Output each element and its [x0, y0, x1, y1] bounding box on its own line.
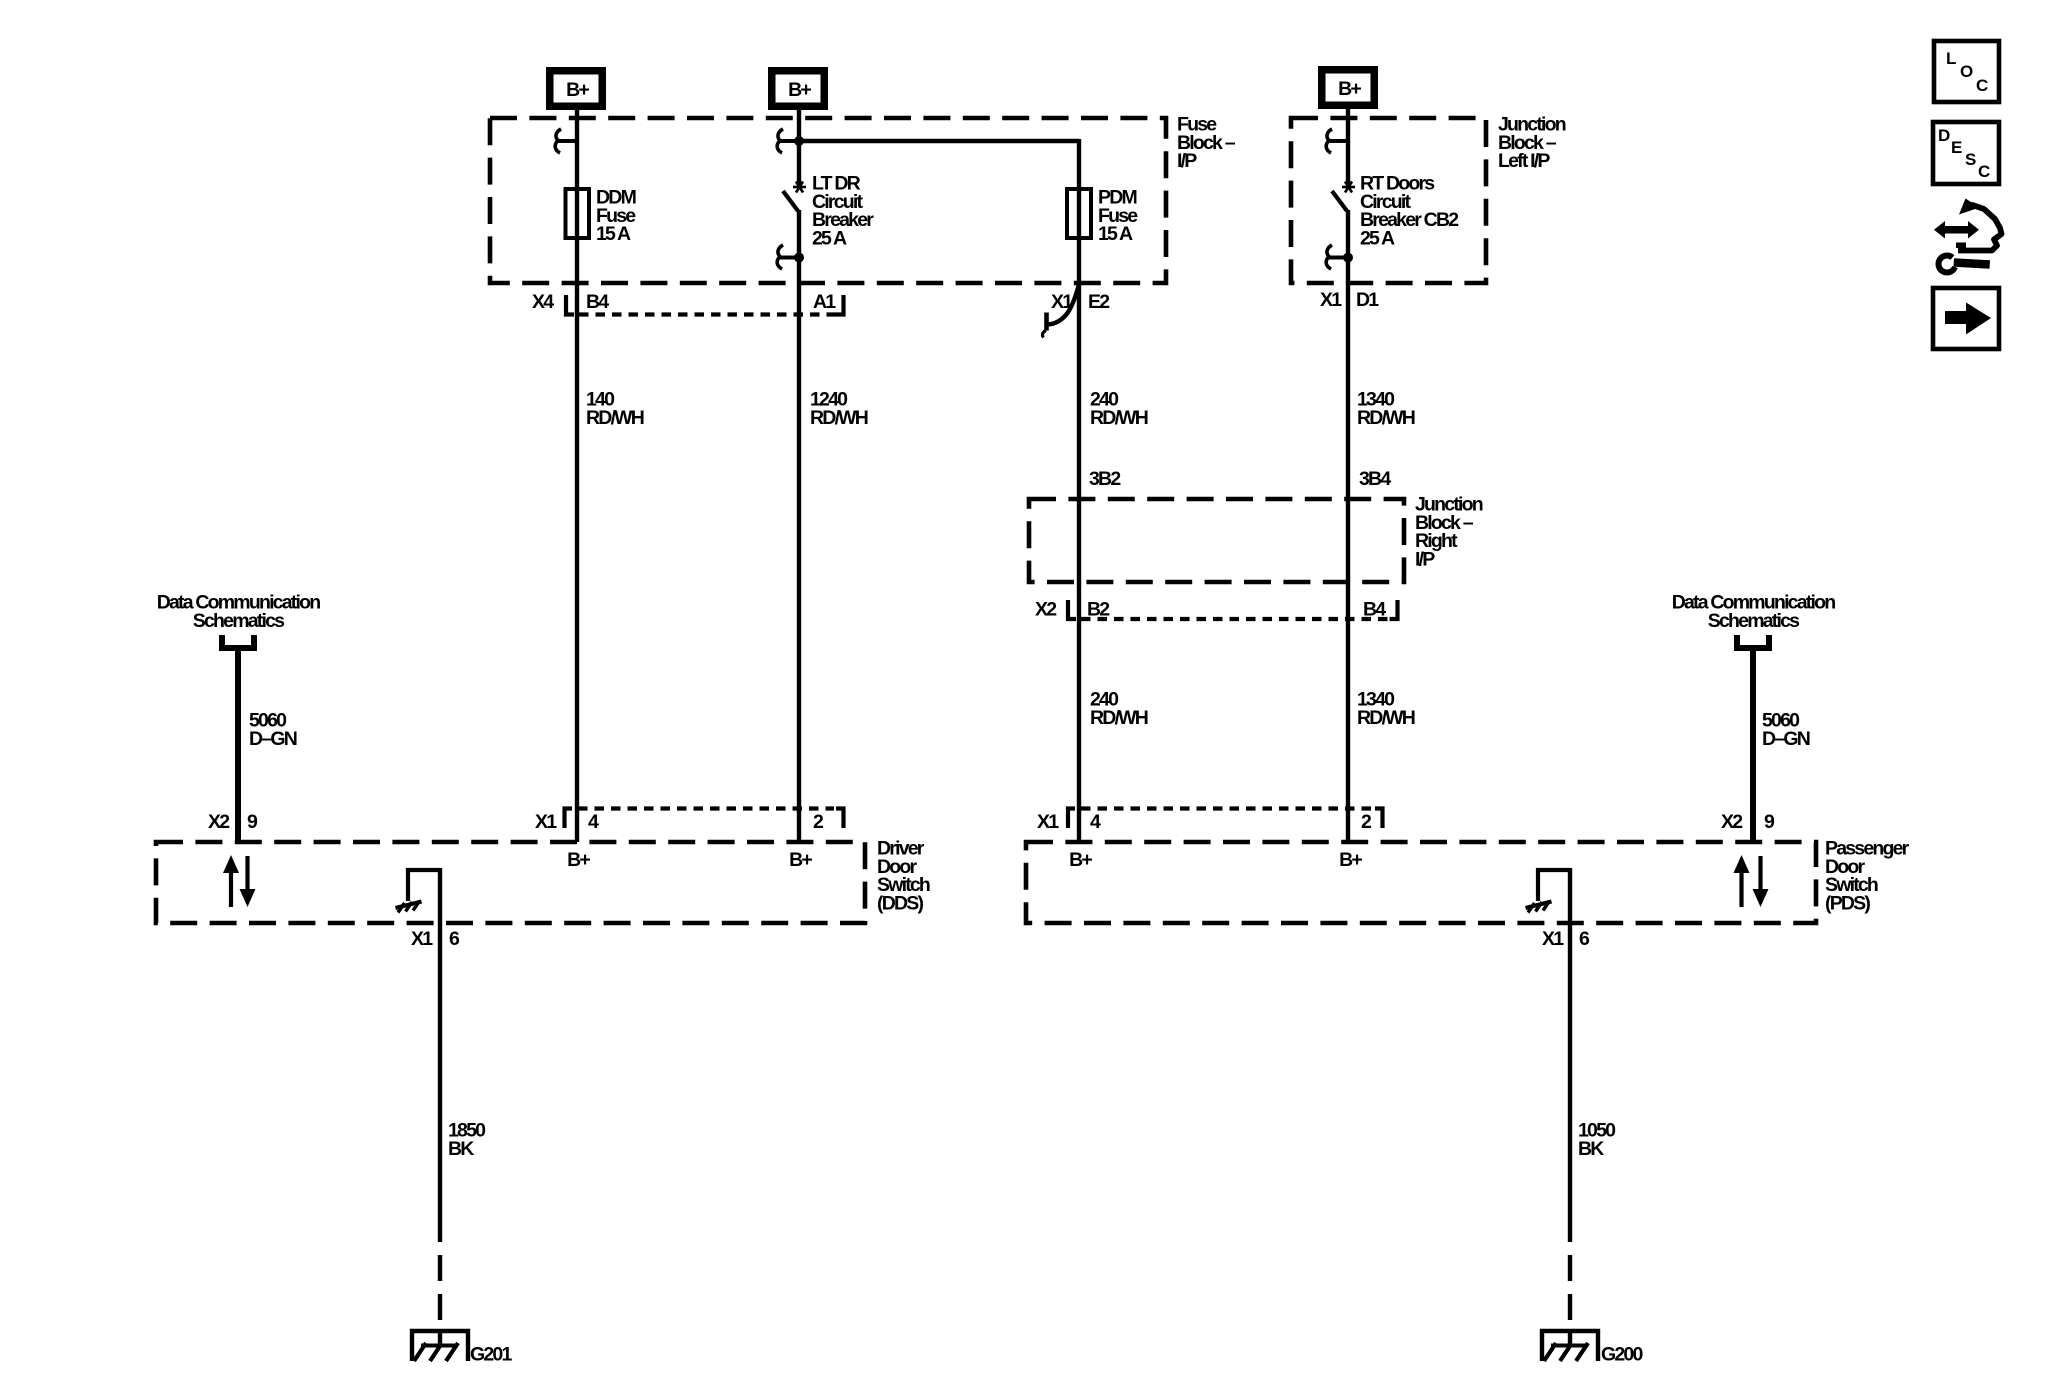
pin X1 6 labels DDS — [411, 928, 460, 950]
internal chassis ground hatch PDS — [1526, 901, 1552, 913]
junction dot node B+ bus — [794, 136, 804, 146]
svg-text:X1: X1 — [411, 928, 433, 950]
internal ground jog DDS — [408, 870, 440, 901]
connector X4 dotted line — [579, 312, 838, 316]
wire 1850 BK upper (DDS ground pin) — [438, 868, 442, 1216]
LT DR breaker blade — [783, 191, 798, 211]
net label 240 RD/WH upper — [1090, 389, 1148, 429]
svg-text:B+: B+ — [1338, 78, 1361, 100]
fuse DDM symbol — [566, 189, 590, 238]
ground G201 symbol — [412, 1331, 468, 1361]
terminal clip wire4 bottom — [1326, 245, 1346, 269]
svg-text:25 A: 25 A — [812, 227, 847, 249]
svg-text:G200: G200 — [1601, 1344, 1643, 1366]
svg-text:D: D — [1938, 126, 1950, 145]
power symbol B+ 3 — [1318, 66, 1378, 109]
junction block left title — [1498, 114, 1566, 173]
driver door switch dashed box — [156, 842, 865, 923]
wire 140 RD/WH vertical (DDM fuse feed) — [575, 110, 579, 842]
passenger door switch dashed box — [1026, 842, 1816, 923]
net label 1340 RD/WH upper — [1357, 389, 1415, 429]
net label 140 RD/WH — [586, 389, 644, 429]
fuse block I/P dashed box — [490, 118, 1166, 283]
connector X2 dotted line — [1081, 617, 1390, 621]
svg-text:Schematics: Schematics — [193, 610, 285, 632]
icon forward arrow box — [1933, 288, 1999, 349]
power symbol B+ 2 — [768, 67, 828, 110]
svg-text:B+: B+ — [788, 79, 811, 101]
connector X1 DDS bracket left — [565, 809, 573, 829]
svg-text:X1: X1 — [535, 811, 557, 833]
svg-text:C: C — [1976, 76, 1988, 95]
svg-text:I/P: I/P — [1415, 548, 1435, 570]
jumper wire B+ bus to PDM fuse — [799, 139, 1079, 143]
net label 240 RD/WH lower — [1090, 689, 1148, 729]
circuit breaker CB2 RT doors label — [1360, 173, 1459, 250]
connector X1 D1 labels (JB left output) — [1320, 289, 1379, 311]
svg-text:RD/WH: RD/WH — [1357, 707, 1415, 729]
svg-text:15 A: 15 A — [1098, 223, 1133, 245]
terminal clip wire1 top — [555, 129, 575, 153]
fuse PDM symbol — [1067, 189, 1091, 238]
wire 1240 RD/WH vertical upper (LT DR breaker feed) — [797, 110, 801, 186]
connector X1 PDS bracket right — [1375, 809, 1383, 829]
svg-text:(PDS): (PDS) — [1825, 892, 1870, 914]
svg-text:I/P: I/P — [1177, 150, 1197, 172]
svg-text:BK: BK — [448, 1138, 474, 1160]
connector X4 bracket right — [836, 295, 844, 315]
junction block right title — [1415, 494, 1483, 571]
up arrow PDS — [1734, 855, 1750, 907]
wire 1240 RD/WH vertical lower — [797, 210, 801, 842]
fuse PDM label — [1098, 187, 1138, 246]
svg-text:15 A: 15 A — [596, 223, 631, 245]
svg-text:RD/WH: RD/WH — [1090, 407, 1148, 429]
junction block right I/P dashed box — [1029, 499, 1404, 582]
off-page connector bracket right — [1737, 635, 1769, 648]
svg-text:G201: G201 — [470, 1344, 512, 1366]
wire 1340 RD/WH vertical upper (RT doors breaker feed) — [1346, 108, 1350, 186]
wire 1050 BK dashed lower — [1568, 1216, 1572, 1331]
svg-text:O: O — [1960, 62, 1973, 81]
off-page reference data communication schematics right — [1672, 592, 1836, 632]
svg-text:25 A: 25 A — [1360, 227, 1395, 249]
svg-text:Schematics: Schematics — [1708, 610, 1800, 632]
svg-text:X2: X2 — [208, 811, 230, 833]
pin X2 9 labels DDS — [208, 811, 258, 833]
down arrow PDS — [1753, 856, 1769, 907]
junction block left I/P dashed box — [1291, 118, 1486, 283]
svg-text:RD/WH: RD/WH — [810, 407, 868, 429]
pin X1 6 labels PDS — [1542, 928, 1590, 950]
svg-text:C: C — [1978, 162, 1990, 181]
icon LOC box — [1934, 41, 1999, 102]
terminal clip wire2 bottom — [777, 245, 797, 269]
svg-text:BK: BK — [1578, 1138, 1604, 1160]
connector X1 PDS bracket left — [1068, 809, 1075, 829]
svg-text:B+: B+ — [1339, 849, 1362, 871]
breaker asterisk RT doors — [1342, 182, 1355, 193]
net label 1340 RD/WH lower — [1357, 689, 1415, 729]
fuse block title — [1177, 114, 1236, 173]
net label 1050 BK — [1578, 1120, 1616, 1160]
internal chassis ground hatch DDS — [396, 901, 422, 913]
connector X1 DDS dotted line — [578, 806, 834, 810]
svg-text:D–GN: D–GN — [249, 728, 297, 750]
pin X2 9 labels PDS — [1721, 811, 1775, 833]
wire 5060 D-GN left — [235, 648, 241, 842]
pass-through grommet swoosh on wire 240 — [1042, 284, 1079, 338]
svg-text:D–GN: D–GN — [1762, 728, 1810, 750]
svg-text:X2: X2 — [1035, 599, 1057, 621]
svg-text:B+: B+ — [567, 849, 590, 871]
junction dot node LT DR breaker lower contact — [794, 253, 804, 263]
terminal clip wire2 top — [777, 129, 797, 153]
fuse DDM label — [596, 187, 636, 246]
svg-text:D1: D1 — [1356, 289, 1379, 311]
svg-text:X1: X1 — [1037, 811, 1059, 833]
power symbol B+ 1 — [546, 67, 606, 110]
svg-text:B+: B+ — [789, 849, 812, 871]
terminal clip wire4 top — [1326, 129, 1346, 153]
connector X2 bracket left — [1068, 600, 1076, 619]
connector X4 bracket left — [566, 295, 574, 315]
svg-text:B+: B+ — [1069, 849, 1092, 871]
svg-text:E: E — [1951, 138, 1962, 157]
wire 5060 D-GN right — [1750, 648, 1756, 842]
svg-text:A1: A1 — [813, 291, 836, 313]
connector X2 bracket right — [1390, 600, 1398, 619]
up arrow DDS — [223, 855, 239, 907]
svg-text:B+: B+ — [566, 79, 589, 101]
wire 1850 BK dashed lower — [438, 1216, 442, 1331]
circuit breaker LT DR label — [812, 173, 874, 250]
net label 5060 D-GN left — [249, 710, 297, 750]
icon diagnostic tools glyph — [1934, 199, 2002, 273]
svg-text:3B2: 3B2 — [1089, 468, 1121, 490]
connector X1 E2 labels (PDM output) — [1051, 291, 1110, 313]
RT doors breaker blade — [1332, 191, 1347, 211]
down arrow DDS — [240, 856, 256, 907]
off-page connector bracket left — [222, 635, 254, 648]
svg-text:Left I/P: Left I/P — [1498, 150, 1550, 172]
passenger door switch title — [1825, 838, 1910, 915]
ground G200 symbol — [1542, 1331, 1598, 1361]
svg-text:(DDS): (DDS) — [877, 892, 923, 914]
net label 1240 RD/WH — [810, 389, 868, 429]
svg-text:X1: X1 — [1320, 289, 1342, 311]
svg-text:3B4: 3B4 — [1359, 468, 1391, 490]
svg-text:L: L — [1946, 49, 1956, 68]
connector X1 DDS bracket right — [836, 809, 844, 829]
connector X1 PDS dotted line — [1081, 806, 1372, 810]
svg-text:X4: X4 — [532, 291, 554, 313]
svg-text:X1: X1 — [1542, 928, 1564, 950]
wire 1050 BK upper (PDS ground pin) — [1568, 868, 1572, 1216]
internal ground jog PDS — [1538, 870, 1570, 901]
svg-text:S: S — [1965, 150, 1976, 169]
wire 1340 RD/WH vertical lower — [1346, 210, 1350, 842]
svg-text:B4: B4 — [1363, 599, 1386, 621]
net label 1850 BK — [448, 1120, 486, 1160]
icon DESC box — [1933, 122, 1999, 184]
svg-text:RD/WH: RD/WH — [1090, 707, 1148, 729]
junction dot node RT doors breaker lower contact — [1343, 253, 1353, 263]
svg-text:X2: X2 — [1721, 811, 1743, 833]
net label 5060 D-GN right — [1762, 710, 1810, 750]
svg-text:B4: B4 — [586, 291, 609, 313]
svg-text:RD/WH: RD/WH — [1357, 407, 1415, 429]
wire 240 RD/WH vertical (PDM fuse) — [1077, 139, 1081, 842]
svg-text:E2: E2 — [1088, 291, 1110, 313]
off-page reference data communication schematics left — [157, 592, 321, 632]
driver door switch title — [877, 838, 930, 915]
breaker asterisk LT DR — [793, 182, 806, 193]
svg-text:RD/WH: RD/WH — [586, 407, 644, 429]
